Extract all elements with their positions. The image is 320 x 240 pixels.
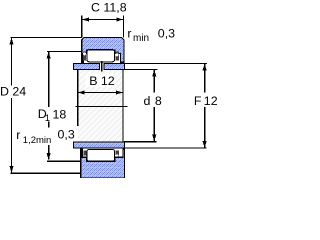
arrow d down <box>152 135 156 142</box>
wire: B box left vertical <box>77 70 79 126</box>
seal right top section <box>115 51 119 60</box>
wire: D dimension vertical upper <box>11 38 13 86</box>
wire: d top reference line <box>125 69 158 71</box>
shaft hatch area <box>78 70 122 142</box>
seal left bottom section <box>83 150 86 159</box>
roller top section <box>87 50 115 62</box>
wire: B dimension line <box>78 92 123 94</box>
svg-text:B 12: B 12 <box>89 74 115 88</box>
outer ring top section <box>82 38 124 63</box>
wire: F dimension vertical lower <box>204 107 206 148</box>
inner ring strip top left part <box>74 64 100 70</box>
svg-text:8: 8 <box>155 94 162 108</box>
label B 12 backdrop <box>86 74 114 88</box>
svg-text:r: r <box>127 26 131 40</box>
inner ring strip top right part <box>104 64 125 70</box>
arrow B left <box>78 90 85 94</box>
svg-text:C 11,8: C 11,8 <box>91 1 127 15</box>
seal left top section <box>83 51 86 60</box>
wire: D1 / r leader vertical upper <box>48 52 50 107</box>
wire: D1 / r leader vertical lower <box>48 145 50 160</box>
arrow B right <box>116 90 123 94</box>
wire: B box right vertical <box>122 70 124 142</box>
svg-text:F: F <box>194 94 202 108</box>
inner ring strip bottom section <box>74 142 125 148</box>
svg-text:18: 18 <box>53 107 67 121</box>
svg-text:D 24: D 24 <box>0 85 26 99</box>
wire: D dimension vertical lower <box>11 98 13 173</box>
svg-text:r: r <box>16 128 20 142</box>
svg-text:d: d <box>144 94 151 108</box>
svg-text:1: 1 <box>45 113 50 124</box>
svg-text:1,2min: 1,2min <box>23 135 52 146</box>
wire: C extension line left <box>81 15 83 37</box>
roller center tick top <box>101 61 103 72</box>
arrow F down <box>203 141 207 148</box>
arrow F up <box>203 64 207 71</box>
wire: D1 / r leader vertical middle <box>48 122 50 128</box>
wire: F dimension vertical upper <box>204 64 206 93</box>
arrow D down <box>9 166 13 173</box>
arrow C right <box>116 17 123 21</box>
arrow D up <box>9 38 13 45</box>
svg-text:0,3: 0,3 <box>58 128 75 142</box>
wire: d bottom reference line <box>124 141 157 143</box>
wire: d dimension vertical lower <box>153 107 155 142</box>
wire: r12 reference line bottom <box>47 160 81 162</box>
wire: d dimension vertical upper <box>153 70 155 93</box>
wire: D bottom reference line <box>11 172 81 174</box>
wire: C dimension line <box>82 19 123 21</box>
arrow r12 down <box>47 153 51 160</box>
outer ring bottom section <box>81 149 125 178</box>
wire: D1 shoulder reference line <box>47 51 82 53</box>
svg-text:12: 12 <box>204 94 217 108</box>
wire: F top reference line <box>124 63 207 65</box>
arrow C left <box>82 17 89 21</box>
wire: C extension line right <box>122 15 124 37</box>
arrow D1 up <box>47 52 51 59</box>
roller bottom section <box>87 149 115 161</box>
wire: axis centerline <box>76 106 128 108</box>
svg-text:min: min <box>133 33 149 44</box>
wire: F bottom reference line <box>125 147 207 149</box>
svg-text:0,3: 0,3 <box>158 26 175 40</box>
arrow d up <box>152 70 156 77</box>
wire: top surface line D level <box>11 37 83 39</box>
seal right bottom section <box>115 150 119 159</box>
